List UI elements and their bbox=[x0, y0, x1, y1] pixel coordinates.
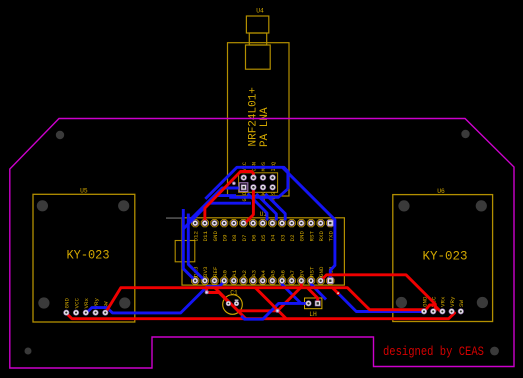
wire blue: C1 to LH left pad bbox=[241, 303, 307, 319]
svg-text:D2: D2 bbox=[289, 234, 296, 241]
svg-text:A1: A1 bbox=[231, 270, 238, 277]
svg-text:U6: U6 bbox=[437, 188, 445, 195]
via C bbox=[336, 291, 340, 295]
svg-text:D4: D4 bbox=[270, 234, 277, 241]
wire red: U5 SW across under U1 to U6 VCC bbox=[106, 288, 441, 313]
U1 top row pin name labels bbox=[193, 231, 335, 242]
U4 header bottom pin labels bbox=[242, 191, 277, 201]
capacitor C1 silk circle bbox=[223, 290, 243, 315]
joystick module U5 outline bbox=[33, 188, 135, 323]
U6 pin name labels bbox=[421, 296, 465, 307]
via D (near header pin1) bbox=[232, 182, 236, 186]
wire red: branch through C1 to bus bbox=[215, 288, 246, 319]
U5 pin pads GND VCC VRx VRy SW bbox=[63, 310, 108, 316]
wire blue: U5 VRx to via A bbox=[86, 281, 224, 314]
U1 pad TXD (square) bbox=[327, 220, 333, 226]
svg-text:VRx: VRx bbox=[83, 298, 90, 309]
wire red: header CE down to U1 D7 bbox=[245, 187, 254, 223]
wire blue: chevron diagonal 2 bbox=[183, 196, 236, 229]
wire red: branch to via B bbox=[238, 309, 278, 312]
svg-text:A4: A4 bbox=[260, 270, 267, 277]
svg-text:RXD: RXD bbox=[318, 231, 325, 242]
U6 pin pads GND VCC VRx VRy SW bbox=[421, 308, 464, 314]
wire blue: header branch diagonal 3 bbox=[265, 194, 285, 221]
svg-text:VCC: VCC bbox=[73, 298, 80, 309]
wire blue: under-header horizontal bbox=[229, 189, 287, 197]
svg-text:GND: GND bbox=[212, 231, 219, 242]
board mounting hole bottom-right bbox=[490, 347, 499, 356]
board outline bbox=[10, 119, 514, 369]
U5 corner mounting holes bbox=[37, 200, 131, 308]
wire red: branch diagonal to bottom bus bbox=[255, 288, 286, 319]
wire red: main line stub down to via A bbox=[205, 288, 208, 293]
wire blue: header branch diagonal 1 bbox=[248, 194, 267, 221]
wire blue: U1 A7 down to LH run bbox=[282, 281, 301, 303]
wire blue: via C to U6 VRx bbox=[338, 293, 424, 311]
svg-text:GND: GND bbox=[299, 231, 306, 242]
wire red: U1 GND to U6 GND bbox=[321, 275, 436, 312]
wire blue: U1 RST down right bbox=[311, 281, 326, 300]
U4 header pin1 square outline bbox=[239, 183, 248, 192]
via B bbox=[276, 309, 280, 313]
wire blue: USB vertical 2 to pad 3V3 bbox=[188, 214, 205, 281]
U1 USB connector silk bbox=[175, 241, 195, 262]
U1 bottom pin row pad octagon silk bbox=[192, 277, 335, 284]
svg-text:D5: D5 bbox=[260, 234, 267, 241]
svg-text:D11: D11 bbox=[202, 231, 209, 242]
svg-text:D6: D6 bbox=[250, 234, 257, 241]
svg-text:RST: RST bbox=[308, 266, 315, 277]
wire blue: header branch diagonal 2 bbox=[256, 194, 276, 221]
nRF24L01 pin header J-U4 silk box bbox=[239, 173, 278, 193]
svg-text:designed by CEAS: designed by CEAS bbox=[383, 345, 484, 359]
board mounting hole top-left bbox=[56, 131, 64, 139]
svg-text:D8: D8 bbox=[231, 234, 238, 241]
U1 bottom pin row pads (D13..GND) bbox=[192, 278, 323, 284]
svg-text:NRF24L01+: NRF24L01+ bbox=[248, 87, 260, 146]
svg-text:A2: A2 bbox=[241, 270, 248, 277]
joystick module U6 outline bbox=[393, 188, 493, 322]
U1 top pin row pad octagon silk bbox=[192, 219, 335, 226]
wire red: stub to via C bbox=[332, 288, 338, 294]
U4 header top pin labels bbox=[242, 162, 277, 172]
svg-text:A7: A7 bbox=[289, 270, 296, 277]
wire blue: chevron diagonal 1 to header pin row bbox=[188, 188, 239, 222]
wire red: via B up to U1 5V pad bbox=[278, 281, 302, 311]
U4 header top row pads bbox=[241, 175, 276, 181]
svg-text:D7: D7 bbox=[241, 234, 248, 241]
svg-text:RST: RST bbox=[308, 231, 315, 242]
svg-text:PA LNA: PA LNA bbox=[259, 107, 271, 147]
wire red: branch to LH right pad bbox=[307, 288, 317, 304]
C1 pads bbox=[226, 301, 231, 306]
svg-text:A6: A6 bbox=[279, 270, 286, 277]
board mounting hole top-right bbox=[461, 130, 469, 138]
svg-text:VRy: VRy bbox=[449, 296, 456, 307]
header LH silk box bbox=[305, 298, 322, 318]
U5 pin name labels bbox=[64, 298, 110, 309]
svg-text:D12: D12 bbox=[193, 231, 200, 242]
board mounting hole bottom-left bbox=[25, 348, 32, 355]
svg-text:5V: 5V bbox=[299, 270, 306, 277]
wire blue: header wrap to U1 VIN bbox=[205, 167, 288, 199]
svg-text:U4: U4 bbox=[256, 8, 264, 15]
svg-text:D3: D3 bbox=[279, 234, 286, 241]
svg-text:SW: SW bbox=[458, 300, 465, 307]
U4 header bottom row pads (pin1 square) bbox=[241, 184, 247, 190]
U1 top pin row pads (D12..TXD) bbox=[192, 220, 323, 226]
via A bbox=[205, 290, 209, 294]
wire red: U5 GND bottom bus to U6 VRy bbox=[66, 311, 454, 318]
LH pads bbox=[306, 300, 312, 306]
wire blue: short run above U1 row bbox=[210, 202, 252, 205]
svg-text:3V3: 3V3 bbox=[202, 266, 209, 277]
wire blue: USB vertical 1 to pad D13 bbox=[183, 209, 195, 281]
svg-text:A5: A5 bbox=[270, 270, 277, 277]
svg-text:KY-023: KY-023 bbox=[67, 248, 110, 263]
svg-text:A3: A3 bbox=[250, 270, 257, 277]
U1 pad VIN (square) bbox=[327, 278, 333, 284]
U1 bottom row pin name labels bbox=[193, 266, 335, 277]
svg-text:KY-023: KY-023 bbox=[423, 249, 468, 264]
svg-text:U5: U5 bbox=[80, 188, 88, 195]
svg-text:VRx: VRx bbox=[440, 296, 447, 307]
wire red: U1 D11 up to header CSN bbox=[205, 172, 254, 224]
wire blue: header big diagonal bbox=[282, 167, 335, 280]
svg-text:REF: REF bbox=[212, 266, 219, 277]
wire red: via A to C1 plus pad bbox=[207, 293, 229, 305]
svg-text:GND: GND bbox=[64, 298, 71, 309]
nRF24L01 module U4 body outline bbox=[228, 8, 290, 197]
svg-text:GND: GND bbox=[318, 266, 325, 277]
svg-text:D9: D9 bbox=[221, 234, 228, 241]
U6 corner mounting holes bbox=[396, 200, 488, 308]
svg-text:LH: LH bbox=[309, 311, 317, 318]
Arduino Nano U1 outline bbox=[182, 211, 344, 285]
svg-text:C1: C1 bbox=[230, 290, 238, 297]
svg-text:A0: A0 bbox=[221, 270, 228, 277]
